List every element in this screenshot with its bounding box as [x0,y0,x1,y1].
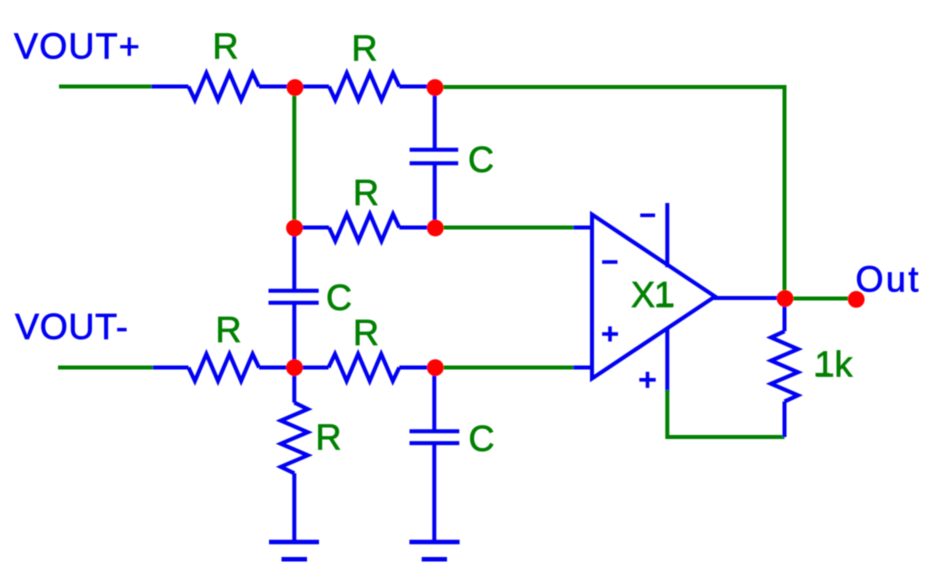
capacitor C3 (node F to ground) [410,368,460,541]
wire op-amp inverting input lead [574,226,593,230]
resistor R4 (VOUT- left R) [153,354,295,381]
resistor R6 (node E to ground) [281,368,308,541]
capacitor C2 (between node C and node E) [269,228,319,368]
svg-text:R: R [352,28,378,69]
svg-text:VOUT+: VOUT+ [14,26,141,67]
junction node C [286,220,303,237]
ground (left) [269,542,319,559]
svg-text:R: R [213,26,239,67]
op-amp plus sign (inner) [602,326,618,341]
wire op-amp non-inverting input lead [574,366,593,370]
resistor R1 (VOUT+ left R) [152,73,296,100]
resistor R2 (VOUT+ right R) [295,73,436,100]
junction node A [287,79,304,96]
wire VOUT- input [58,366,153,370]
wire node B to output column (top) [435,87,785,299]
svg-text:R: R [216,309,242,350]
resistor R5 (to non-inverting input) [295,354,436,381]
wire output to Out terminal [785,297,856,301]
resistor R3 (to inverting input) [295,214,436,241]
wire feedback from pin down and right [667,390,784,437]
terminal Out [848,291,865,308]
wire node F to op-amp non-inverting input [435,366,574,370]
op-amp plus sign (outer, bottom) [639,372,655,388]
junction output node [777,290,794,307]
capacitor C1 (top, across R2) [410,87,459,228]
wire VOUT+ input [59,85,152,89]
svg-text:Out: Out [856,259,921,300]
op-amp minus sign (outer, top) [640,214,655,218]
wire node D to op-amp inverting input [435,226,574,230]
svg-text:R: R [316,417,342,458]
op-amp non-inverting output pin lead [665,329,669,393]
svg-text:1k: 1k [815,344,854,385]
svg-text:C: C [469,418,495,459]
svg-text:C: C [468,139,494,180]
junction node D [427,220,444,237]
op-amp inverting output pin stub [665,203,669,267]
op-amp U1 triangle [592,215,715,379]
svg-text:R: R [353,172,379,213]
wire node A down to node C [292,87,296,228]
ground (right) [409,542,459,559]
svg-text:X1: X1 [631,274,673,315]
junction node E [286,359,303,376]
junction node F [427,359,444,376]
svg-text:R: R [353,312,379,353]
op-amp minus sign (inner) [602,260,617,264]
svg-text:VOUT-: VOUT- [15,306,129,347]
junction node B [427,79,444,96]
svg-text:C: C [326,277,352,318]
resistor R7 1k (output to feedback) [771,299,798,438]
wire op-amp output [713,296,785,300]
